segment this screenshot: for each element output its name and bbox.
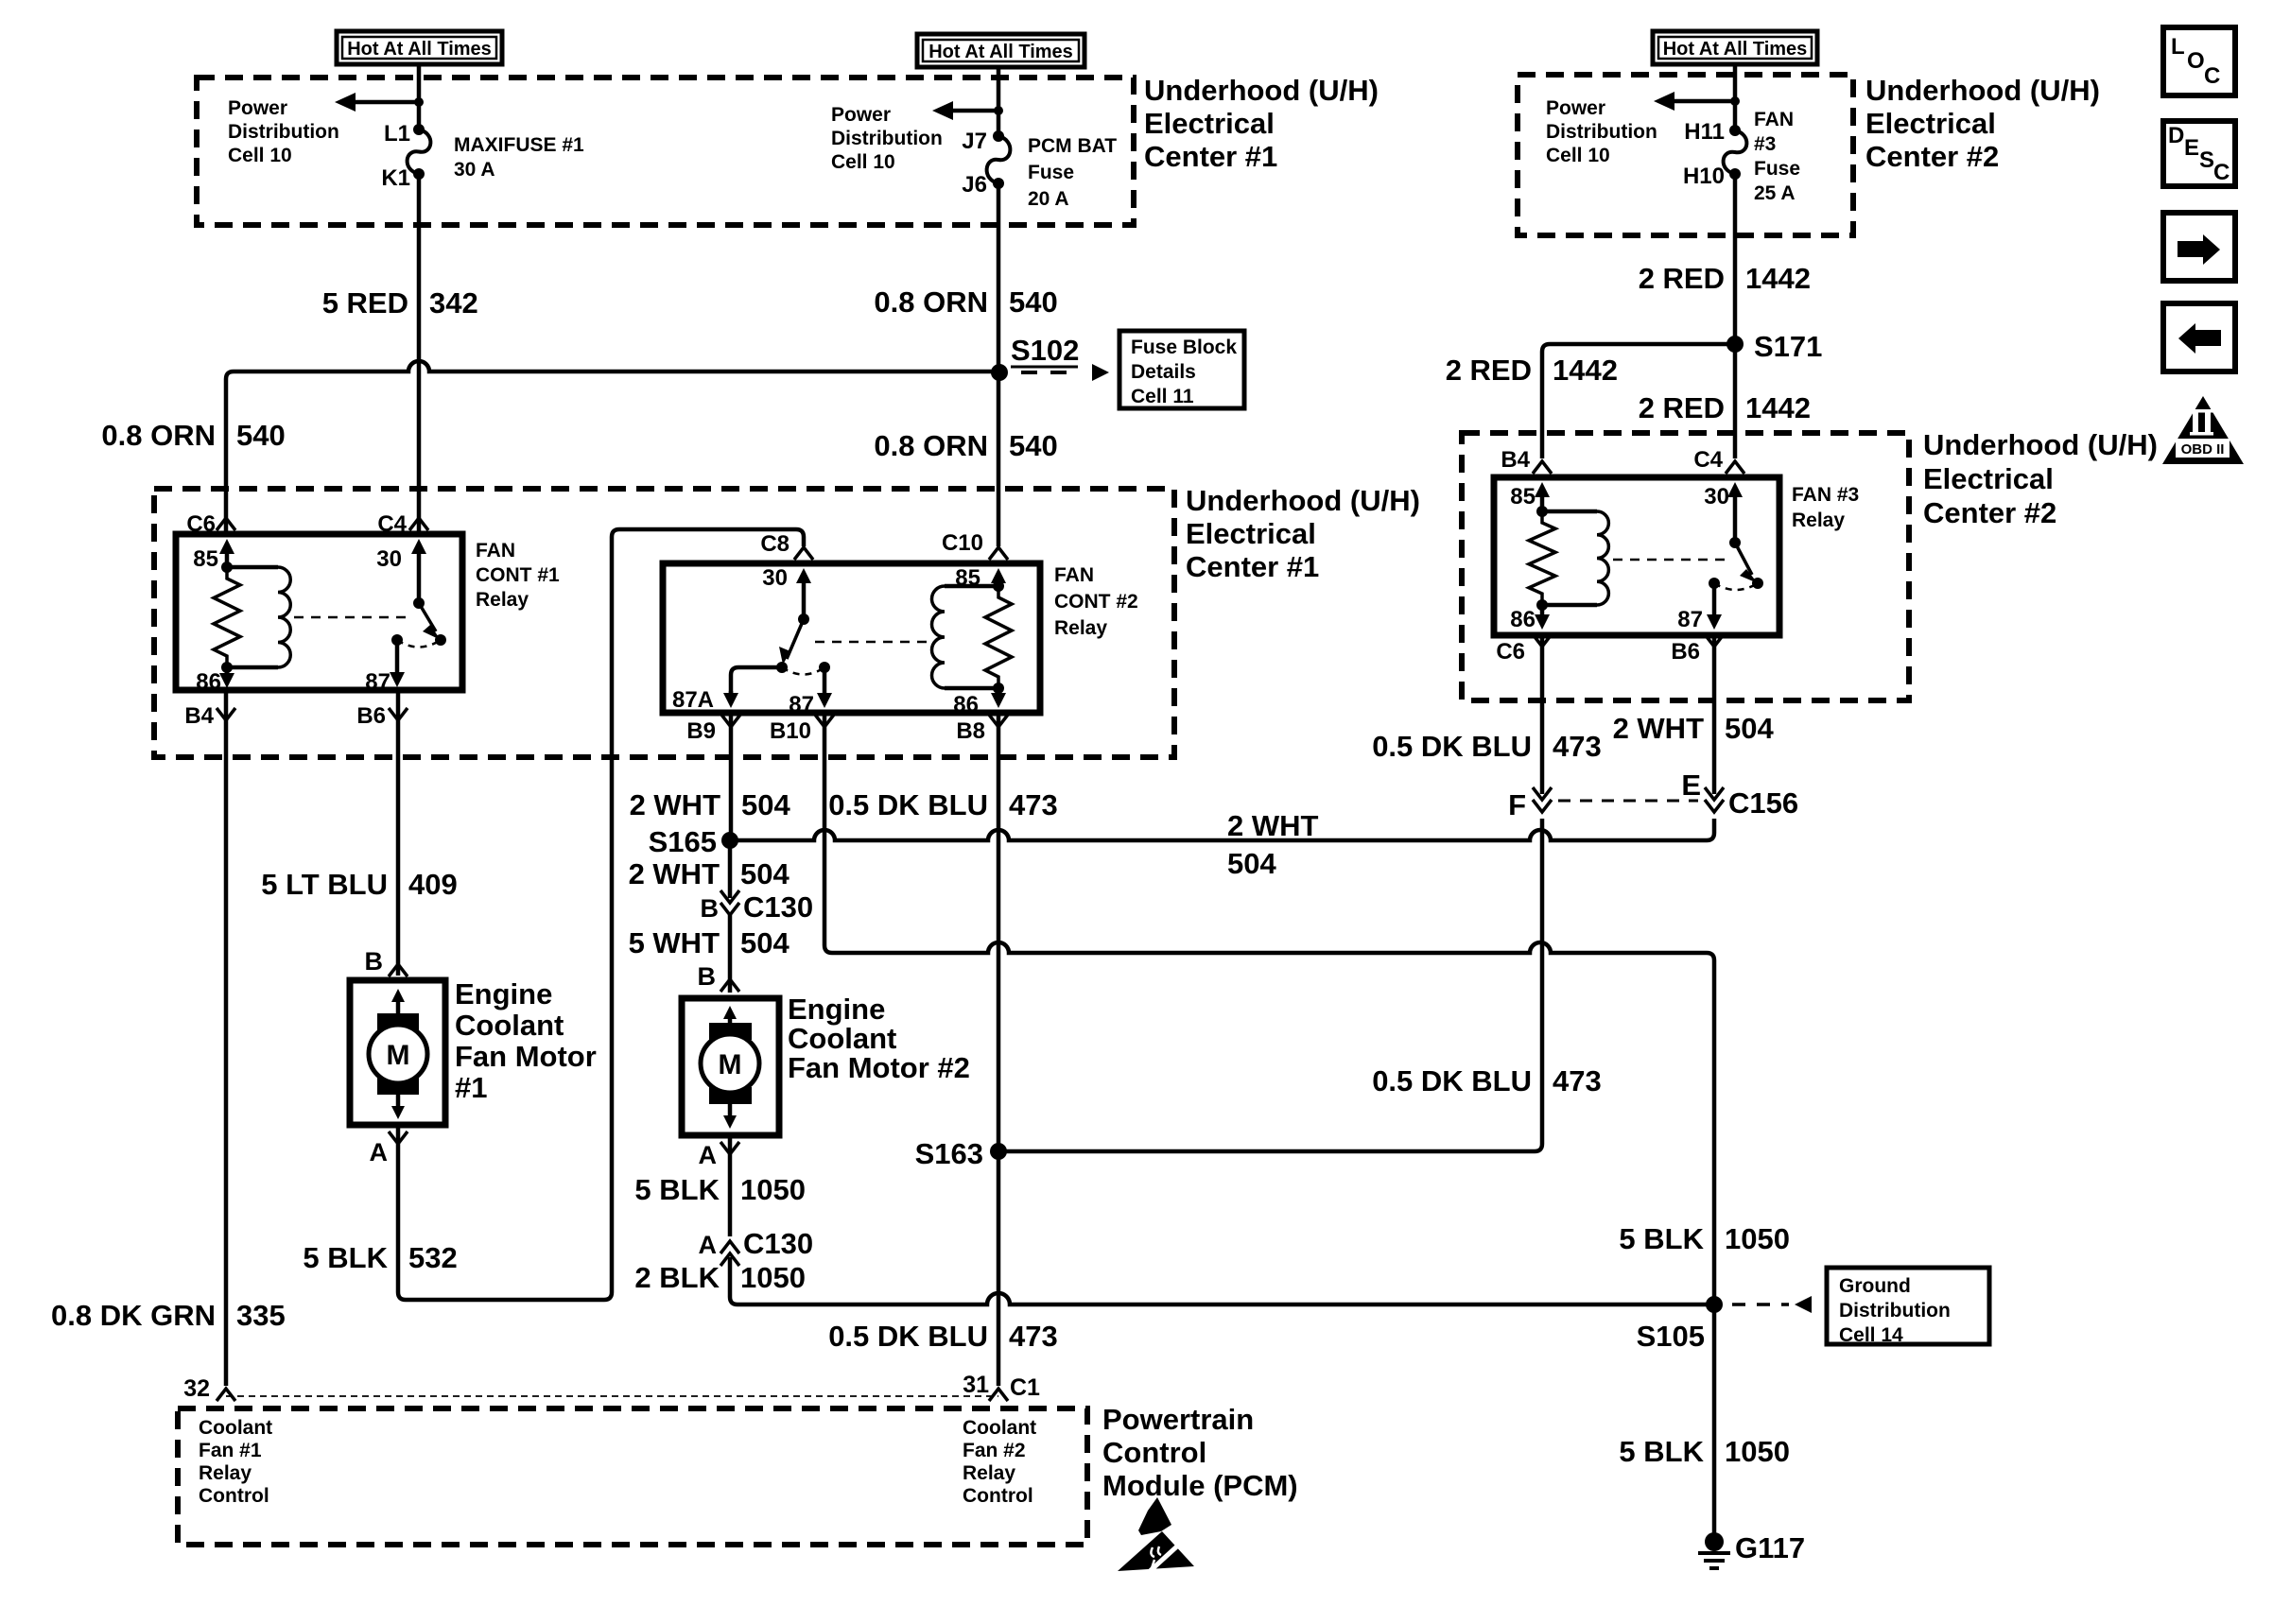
svg-text:1050: 1050 xyxy=(740,1261,806,1294)
wire: S165 to C130 B, 2 WHT 504 xyxy=(728,840,733,898)
svg-text:Coolant: Coolant xyxy=(199,1417,272,1439)
svg-text:B: B xyxy=(701,894,720,923)
svg-text:1442: 1442 xyxy=(1553,354,1618,387)
svg-text:Underhood (U/H): Underhood (U/H) xyxy=(1144,74,1379,107)
relay1 pin C6 connector xyxy=(217,518,235,530)
relay1 pin 86 xyxy=(221,662,233,673)
wire: H10 to relay3 C4, 2 RED 1442 xyxy=(1733,174,1738,458)
svg-text:Hot At All Times: Hot At All Times xyxy=(928,42,1073,62)
relay3 coil-switch dashed link xyxy=(1613,559,1728,561)
svg-text:Center #2: Center #2 xyxy=(1923,496,2056,529)
svg-text:Relay: Relay xyxy=(199,1462,252,1484)
svg-text:Cell 10: Cell 10 xyxy=(1546,145,1610,166)
svg-text:CONT #1: CONT #1 xyxy=(476,564,560,586)
svg-text:5 BLK: 5 BLK xyxy=(1619,1435,1704,1468)
svg-text:5 WHT: 5 WHT xyxy=(629,926,720,959)
svg-text:PCM BAT: PCM BAT xyxy=(1028,135,1117,157)
svg-text:31: 31 xyxy=(963,1372,989,1398)
svg-text:Relay: Relay xyxy=(1054,617,1107,639)
icon: forward arrow box xyxy=(2163,213,2235,281)
svg-text:B4: B4 xyxy=(1501,447,1530,473)
svg-text:B6: B6 xyxy=(356,703,386,729)
svg-text:473: 473 xyxy=(1553,1064,1602,1097)
svg-text:H10: H10 xyxy=(1683,164,1725,189)
svg-text:A: A xyxy=(699,1141,718,1169)
svg-text:Engine: Engine xyxy=(788,993,885,1026)
svg-text:540: 540 xyxy=(236,419,286,452)
svg-text:S102: S102 xyxy=(1011,334,1079,367)
svg-text:OBD II: OBD II xyxy=(2181,441,2225,458)
wire: relay2 B9 to S165 xyxy=(729,713,734,840)
svg-text:Power: Power xyxy=(228,97,287,119)
wire: motor1 A to relay2 pin C8/30, 5 BLK 532 xyxy=(398,529,804,1300)
svg-text:1050: 1050 xyxy=(740,1173,806,1206)
svg-text:0.8 ORN: 0.8 ORN xyxy=(874,285,988,319)
wire: S171 branch to relay3 B4, 2 RED 1442 xyxy=(1542,344,1735,458)
power flag: Hot At All Times (left) xyxy=(337,31,502,64)
svg-text:2 RED: 2 RED xyxy=(1639,391,1725,424)
svg-text:473: 473 xyxy=(1009,788,1058,821)
svg-text:Ground: Ground xyxy=(1839,1275,1911,1297)
wire: Hot At All Times right to H11 xyxy=(1733,64,1738,130)
relay2 pin 87A wire xyxy=(731,667,782,693)
svg-text:L1: L1 xyxy=(384,121,410,147)
svg-text:Fan Motor: Fan Motor xyxy=(455,1040,597,1073)
svg-text:Distribution: Distribution xyxy=(1546,121,1657,143)
svg-text:FAN #3: FAN #3 xyxy=(1792,484,1859,506)
svg-text:Fan Motor #2: Fan Motor #2 xyxy=(788,1051,970,1084)
power flag: Hot At All Times (center) xyxy=(917,34,1084,67)
Underhood Electrical Center #2 top dashed box xyxy=(1518,75,1853,235)
wire: Hot At All Times to L1 xyxy=(417,64,422,130)
svg-text:86: 86 xyxy=(953,692,979,717)
svg-text:H11: H11 xyxy=(1684,119,1725,145)
svg-text:473: 473 xyxy=(1553,730,1602,763)
svg-text:FAN: FAN xyxy=(1054,564,1094,586)
svg-text:30: 30 xyxy=(1704,484,1729,510)
wire: C130 to motor2 B, 5 WHT 504 xyxy=(728,915,733,993)
svg-text:504: 504 xyxy=(740,857,789,890)
svg-text:32: 32 xyxy=(183,1375,210,1402)
svg-text:E: E xyxy=(1681,769,1701,802)
relay1 pin C4 connector xyxy=(409,518,428,530)
svg-text:Coolant: Coolant xyxy=(455,1009,564,1042)
splice S171 xyxy=(1726,336,1744,353)
motor M-Engine Coolant Fan Motor #1 xyxy=(350,947,445,1166)
svg-text:B: B xyxy=(365,947,384,976)
svg-text:1050: 1050 xyxy=(1725,1222,1790,1255)
fuse PCM BAT Fuse 20 A xyxy=(987,136,1011,183)
svg-text:Distribution: Distribution xyxy=(1839,1300,1951,1322)
svg-text:2 WHT: 2 WHT xyxy=(1227,809,1319,842)
wire: S105 to G117, 5 BLK 1050 xyxy=(1712,1304,1717,1536)
svg-text:5 LT BLU: 5 LT BLU xyxy=(261,868,388,901)
relay3 pin 86 xyxy=(1536,599,1548,611)
relay1 pin 87 contact xyxy=(391,634,403,646)
relay3 pin B6 connector xyxy=(1705,634,1724,647)
svg-text:C1: C1 xyxy=(1010,1374,1040,1401)
svg-text:504: 504 xyxy=(1227,847,1276,880)
wire: J6 down through S102 to relay2 C10, 0.8 ORN 540 xyxy=(997,183,1001,546)
relay1 resistor xyxy=(214,567,240,667)
svg-text:342: 342 xyxy=(429,286,478,320)
power flag: Hot At All Times (right) xyxy=(1653,31,1817,64)
svg-text:Power: Power xyxy=(1546,97,1605,119)
svg-text:504: 504 xyxy=(740,926,789,959)
svg-text:C130: C130 xyxy=(743,1227,813,1260)
svg-text:473: 473 xyxy=(1009,1320,1058,1353)
Underhood Electrical Center #2 bottom dashed box xyxy=(1462,433,1909,700)
svg-text:G117: G117 xyxy=(1735,1531,1805,1564)
svg-text:Relay: Relay xyxy=(963,1462,1015,1484)
svg-text:1442: 1442 xyxy=(1745,262,1811,295)
svg-text:2 RED: 2 RED xyxy=(1639,262,1725,295)
svg-text:87: 87 xyxy=(1677,607,1703,632)
icon: LOC box xyxy=(2163,27,2235,95)
svg-text:Center #1: Center #1 xyxy=(1144,140,1277,173)
svg-text:30: 30 xyxy=(376,546,402,572)
PCM pin 32 xyxy=(217,1389,235,1401)
svg-text:Cell 14: Cell 14 xyxy=(1839,1324,1903,1346)
svg-text:C: C xyxy=(2204,63,2220,89)
svg-text:C6: C6 xyxy=(1496,639,1525,665)
relay2 pin C8 connector xyxy=(794,547,813,560)
svg-text:Power: Power xyxy=(831,104,891,126)
relay2 pin B10 connector xyxy=(815,715,834,727)
relay2 pin B9 connector xyxy=(721,715,740,727)
wire: relay3 C6 to connector C156 F, 0.5 DK BLU 473 xyxy=(1540,635,1545,794)
svg-text:FAN: FAN xyxy=(476,540,515,561)
relay3 coil xyxy=(1542,510,1597,514)
icon: back arrow box xyxy=(2163,303,2235,371)
svg-text:Distribution: Distribution xyxy=(831,128,943,149)
svg-text:C6: C6 xyxy=(186,511,216,537)
svg-text:0.8 DK GRN: 0.8 DK GRN xyxy=(51,1299,216,1332)
svg-text:504: 504 xyxy=(741,788,790,821)
svg-text:87: 87 xyxy=(365,669,390,695)
svg-text:2 WHT: 2 WHT xyxy=(630,788,721,821)
svg-text:C8: C8 xyxy=(760,531,789,557)
svg-text:C10: C10 xyxy=(942,530,983,556)
svg-text:S165: S165 xyxy=(649,825,717,858)
svg-text:S105: S105 xyxy=(1637,1320,1705,1353)
Underhood Electrical Center #1 top dashed box xyxy=(197,78,1134,225)
svg-text:409: 409 xyxy=(408,868,458,901)
svg-text:MAXIFUSE #1: MAXIFUSE #1 xyxy=(454,134,584,156)
svg-text:Electrical: Electrical xyxy=(1144,107,1275,140)
svg-text:O: O xyxy=(2187,48,2205,74)
svg-text:335: 335 xyxy=(236,1299,286,1332)
relay3 pin 85 xyxy=(1535,482,1550,497)
svg-text:Cell 10: Cell 10 xyxy=(831,151,895,173)
svg-text:Coolant: Coolant xyxy=(788,1022,896,1055)
svg-text:Center #1: Center #1 xyxy=(1186,550,1319,583)
svg-text:Control: Control xyxy=(199,1485,269,1507)
svg-text:Hot At All Times: Hot At All Times xyxy=(1663,39,1808,60)
svg-text:532: 532 xyxy=(408,1241,458,1274)
svg-text:504: 504 xyxy=(1725,712,1774,745)
wire: relay2 B10 to S105, high-speed ground xyxy=(824,713,1714,1304)
svg-text:20 A: 20 A xyxy=(1028,188,1069,210)
connector C156 dashed link xyxy=(1558,800,1698,803)
relay1 pin B4 connector xyxy=(217,708,235,720)
svg-text:25 A: 25 A xyxy=(1754,182,1796,204)
svg-text:B6: B6 xyxy=(1671,639,1700,665)
motor M-Engine Coolant Fan Motor #2 xyxy=(682,962,779,1169)
wire: relay2 B8 through S163 to PCM pin 31, 0.5 DK BLU 473 xyxy=(997,713,1001,1386)
svg-text:Coolant: Coolant xyxy=(963,1417,1036,1439)
svg-text:Fuse Block: Fuse Block xyxy=(1131,337,1237,358)
svg-text:L: L xyxy=(2171,34,2185,60)
relay1 pin 85 xyxy=(219,539,234,554)
PCM pin 31 / C1 xyxy=(989,1389,1008,1401)
svg-text:87: 87 xyxy=(789,692,814,717)
wire: S165 to C156 E, 2 WHT 504 (long horizontal) xyxy=(730,819,1714,840)
svg-text:C4: C4 xyxy=(1693,447,1723,473)
connector C156 pin F xyxy=(1533,787,1552,800)
icon: OBD II triangle xyxy=(2162,396,2244,464)
relay1 pin B6 connector xyxy=(389,708,408,720)
splice S102 xyxy=(991,364,1008,381)
svg-text:S163: S163 xyxy=(915,1137,983,1170)
wire: motor2 A to C130 A, 5 BLK 1050 xyxy=(728,1135,733,1236)
svg-text:0.5 DK BLU: 0.5 DK BLU xyxy=(828,1320,988,1353)
svg-text:5 BLK: 5 BLK xyxy=(1619,1222,1704,1255)
svg-text:C4: C4 xyxy=(377,511,407,537)
svg-text:FAN: FAN xyxy=(1754,109,1794,130)
svg-text:#1: #1 xyxy=(455,1071,487,1104)
svg-text:Module (PCM): Module (PCM) xyxy=(1102,1469,1298,1502)
svg-text:E: E xyxy=(2184,135,2199,161)
splice S105 xyxy=(1706,1296,1723,1313)
svg-text:5 BLK: 5 BLK xyxy=(303,1241,388,1274)
svg-text:85: 85 xyxy=(1510,484,1536,510)
svg-text:87A: 87A xyxy=(672,687,714,713)
svg-text:J7: J7 xyxy=(962,129,987,154)
relay3 pin C4 connector xyxy=(1726,461,1744,474)
dashed reference link S105 to Ground Distribution xyxy=(1732,1303,1789,1306)
wire: Hot At All Times center to J7 xyxy=(997,67,1001,136)
connector C130 pin A xyxy=(720,1241,739,1253)
svg-text:C156: C156 xyxy=(1728,786,1798,820)
svg-text:Underhood (U/H): Underhood (U/H) xyxy=(1923,428,2158,461)
svg-text:30: 30 xyxy=(762,565,788,591)
svg-text:S: S xyxy=(2199,147,2214,173)
svg-text:#3: #3 xyxy=(1754,133,1776,155)
svg-text:86: 86 xyxy=(196,669,221,695)
relay3 pin C6 connector xyxy=(1533,634,1552,647)
svg-text:Hot At All Times: Hot At All Times xyxy=(347,39,492,60)
arrow to Power Distribution Cell 10 (left) xyxy=(335,93,356,112)
reference box: Fuse Block Details Cell 11 xyxy=(1119,331,1244,408)
relay K-FAN #3 box xyxy=(1494,447,1779,635)
svg-text:5 BLK: 5 BLK xyxy=(634,1173,720,1206)
relay3 pin 87 contact xyxy=(1709,578,1720,589)
relay2 resistor xyxy=(985,586,1012,688)
wire: K1 to relay C4, 5 RED 342 xyxy=(417,174,422,532)
svg-text:2 WHT: 2 WHT xyxy=(629,857,720,890)
svg-text:B8: B8 xyxy=(956,718,985,744)
svg-text:1050: 1050 xyxy=(1725,1435,1790,1468)
svg-text:Underhood (U/H): Underhood (U/H) xyxy=(1186,484,1420,517)
svg-text:D: D xyxy=(2168,123,2184,148)
svg-text:M: M xyxy=(719,1049,742,1080)
svg-text:2 RED: 2 RED xyxy=(1446,354,1532,387)
reference box: Ground Distribution Cell 14 xyxy=(1827,1268,1989,1344)
svg-text:Electrical: Electrical xyxy=(1923,462,2054,495)
svg-text:K1: K1 xyxy=(381,165,410,191)
svg-text:Electrical: Electrical xyxy=(1865,107,1996,140)
svg-text:85: 85 xyxy=(193,546,218,572)
svg-text:B9: B9 xyxy=(686,718,716,744)
svg-text:Fan #2: Fan #2 xyxy=(963,1440,1026,1461)
svg-text:F: F xyxy=(1508,788,1526,821)
svg-text:0.5 DK BLU: 0.5 DK BLU xyxy=(1372,1064,1532,1097)
dashed reference link S102 to Fuse Block Details xyxy=(1021,371,1080,374)
fuse FAN #3 Fuse 25 A xyxy=(1724,130,1747,174)
relay2 coil-switch dashed link xyxy=(815,641,929,644)
arrow to Power Distribution Cell 10 (center) xyxy=(932,101,953,120)
svg-text:A: A xyxy=(370,1138,389,1166)
svg-text:Engine: Engine xyxy=(455,977,552,1011)
splice S163 xyxy=(990,1143,1007,1160)
svg-text:1442: 1442 xyxy=(1745,391,1811,424)
ground G117 xyxy=(1705,1532,1724,1551)
svg-text:Fuse: Fuse xyxy=(1028,162,1074,183)
svg-text:30 A: 30 A xyxy=(454,159,495,181)
svg-text:Electrical: Electrical xyxy=(1186,517,1316,550)
svg-text:Control: Control xyxy=(1102,1436,1206,1469)
relay2 pin B8 connector xyxy=(989,715,1008,727)
svg-text:S171: S171 xyxy=(1754,330,1822,363)
svg-text:Control: Control xyxy=(963,1485,1033,1507)
wire: relay3 B6 to connector C156 E, 2 WHT 504 xyxy=(1712,635,1717,794)
svg-text:Fuse: Fuse xyxy=(1754,158,1800,180)
Underhood Electrical Center #1 big dashed box xyxy=(154,489,1174,757)
wire: relay1 B4 to PCM pin 32, 0.8 DK GRN 335 xyxy=(224,690,229,1386)
svg-text:Distribution: Distribution xyxy=(228,121,339,143)
svg-text:C130: C130 xyxy=(743,890,813,924)
Powertrain Control Module dashed box xyxy=(178,1408,1087,1545)
relay K-FAN CONT #2 box xyxy=(663,530,1040,717)
relay1 coil-switch dashed link xyxy=(294,616,413,619)
node S102 horizontal wire 0.8 ORN 540 xyxy=(226,361,999,534)
svg-text:M: M xyxy=(387,1040,410,1071)
splice S165 xyxy=(721,832,738,849)
svg-text:540: 540 xyxy=(1009,285,1058,319)
svg-text:B: B xyxy=(698,962,717,991)
connector C156 pin E xyxy=(1705,787,1724,800)
relay2 pin 86 xyxy=(993,682,1004,694)
relay2 pin 87 contact xyxy=(819,662,830,673)
svg-text:Center #2: Center #2 xyxy=(1865,140,1999,173)
wire: S163 to relay3 C6 branch, 0.5 DK BLU 473 xyxy=(998,819,1542,1151)
relay1 coil xyxy=(227,565,278,570)
fuse MAXIFUSE #1 30 A xyxy=(408,130,431,174)
PCM pin dashed boundary line xyxy=(226,1395,998,1397)
svg-text:C: C xyxy=(2213,160,2230,185)
svg-text:0.8 ORN: 0.8 ORN xyxy=(874,429,988,462)
svg-text:2 WHT: 2 WHT xyxy=(1613,712,1705,745)
svg-text:Cell 11: Cell 11 xyxy=(1131,386,1194,407)
svg-text:J6: J6 xyxy=(962,172,987,198)
svg-text:Powertrain: Powertrain xyxy=(1102,1403,1254,1436)
svg-text:B10: B10 xyxy=(770,718,811,744)
svg-text:Fan #1: Fan #1 xyxy=(199,1440,262,1461)
svg-text:540: 540 xyxy=(1009,429,1058,462)
svg-text:2 BLK: 2 BLK xyxy=(634,1261,720,1294)
svg-text:0.5 DK BLU: 0.5 DK BLU xyxy=(1372,730,1532,763)
svg-text:A: A xyxy=(699,1231,718,1259)
ESD sensitivity symbol xyxy=(1138,1497,1171,1535)
svg-text:Underhood (U/H): Underhood (U/H) xyxy=(1865,74,2100,107)
svg-text:Details: Details xyxy=(1131,361,1196,383)
arrow to Power Distribution Cell 10 (right) xyxy=(1654,92,1674,111)
svg-text:CONT #2: CONT #2 xyxy=(1054,591,1138,613)
svg-text:Cell 10: Cell 10 xyxy=(228,145,292,166)
svg-text:5 RED: 5 RED xyxy=(322,286,408,320)
relay K-FAN CONT #1 box xyxy=(176,511,462,695)
icon: DESC box xyxy=(2163,121,2235,186)
connector C130 pin B xyxy=(720,890,739,903)
relay2 coil xyxy=(945,584,998,589)
relay3 resistor xyxy=(1529,511,1555,605)
relay2 pin C10 connector xyxy=(989,547,1008,560)
svg-text:Relay: Relay xyxy=(1792,510,1845,531)
svg-text:0.5 DK BLU: 0.5 DK BLU xyxy=(828,788,988,821)
relay3 pin B4 connector xyxy=(1533,461,1552,474)
wire: C130 A to S105 ground run, 2 BLK 1050 xyxy=(730,1257,1714,1304)
svg-text:B4: B4 xyxy=(184,703,214,729)
svg-text:0.8 ORN: 0.8 ORN xyxy=(101,419,216,452)
svg-text:Relay: Relay xyxy=(476,589,529,611)
wire: relay1 B6 to fan motor1 B, 5 LT BLU 409 xyxy=(396,690,401,976)
svg-text:86: 86 xyxy=(1510,607,1536,632)
